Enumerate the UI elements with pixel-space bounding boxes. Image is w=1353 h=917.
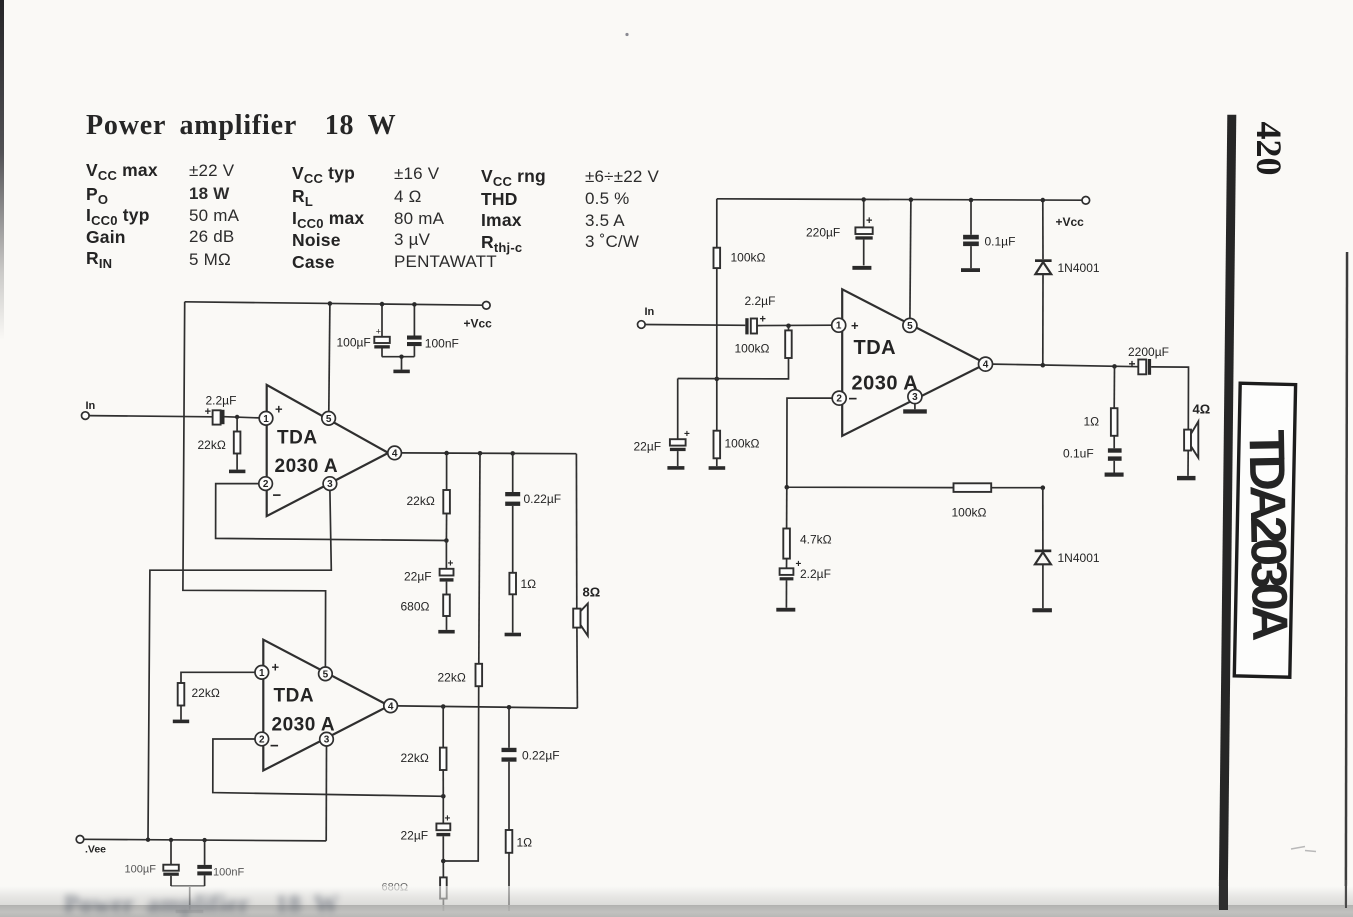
svg-text:.Vee: .Vee	[85, 844, 106, 856]
capacitor 100nF rail decoupling	[407, 302, 459, 357]
svg-text:−: −	[270, 738, 279, 755]
ground under 22uF	[667, 466, 684, 470]
svg-text:1: 1	[836, 321, 842, 332]
capacitor 2.2uF U3 feedback	[780, 559, 831, 608]
sidebar heavy rule bottom segment above bands	[1219, 880, 1228, 910]
scan dashes bottom right	[1291, 847, 1316, 852]
svg-text:22µF: 22µF	[634, 440, 662, 454]
resistor 1 ohm U3 zobel	[1084, 366, 1118, 448]
svg-text:In: In	[645, 306, 655, 318]
svg-text:100kΩ: 100kΩ	[735, 342, 770, 356]
wire left +Vcc rail (bridge circuit)	[185, 302, 483, 305]
wire U2 pin3 to -Vee rail	[325, 746, 327, 841]
svg-text:8Ω: 8Ω	[583, 585, 601, 600]
wire pin5 U3 to rail	[909, 197, 914, 318]
scan speck top middle	[625, 33, 628, 36]
capacitor 100uF -Vee decoupling	[125, 840, 179, 886]
ground under rail caps	[393, 370, 409, 374]
svg-text:+: +	[445, 814, 451, 825]
wire In to input cap	[645, 324, 745, 327]
resistor 1 ohm U2 zobel	[506, 830, 532, 911]
resistor 1 ohm U1 zobel	[509, 573, 536, 633]
svg-text:100µF: 100µF	[337, 336, 371, 350]
wire output cap to speaker	[1151, 367, 1188, 430]
svg-text:+: +	[272, 660, 280, 675]
svg-text:4Ω: 4Ω	[1193, 402, 1211, 417]
svg-text:5: 5	[907, 321, 913, 332]
pin 1 U2	[255, 666, 269, 680]
svg-text:+: +	[866, 215, 872, 227]
pin 3 U2	[320, 732, 334, 746]
ground under U3 zobel	[1105, 473, 1124, 477]
capacitor 100uF rail decoupling	[337, 302, 390, 357]
svg-text:+: +	[760, 314, 766, 326]
diode 1N4001 lower	[1035, 488, 1100, 609]
right page edge line	[1345, 252, 1349, 908]
svg-text:−: −	[849, 391, 858, 408]
capacitor 100nF -Vee decoupling	[197, 840, 244, 886]
svg-text:2.2µF: 2.2µF	[206, 394, 237, 408]
svg-text:1N4001: 1N4001	[1058, 551, 1100, 565]
speaker 8 ohm load	[573, 454, 600, 708]
svg-text:5: 5	[326, 414, 332, 425]
pin 5 U3	[903, 318, 917, 332]
pin 2 U1	[259, 477, 273, 491]
svg-text:2: 2	[836, 394, 842, 405]
pin 3 U1	[323, 477, 337, 491]
svg-text:0.1uF: 0.1uF	[1063, 447, 1094, 461]
svg-text:0.22µF: 0.22µF	[522, 749, 560, 763]
svg-text:3: 3	[324, 735, 330, 746]
ground under 220uF	[852, 266, 871, 270]
ground under 22k input bias	[229, 470, 245, 474]
pin 1 U3	[832, 318, 846, 332]
svg-text:100kΩ: 100kΩ	[731, 251, 766, 265]
svg-text:22kΩ: 22kΩ	[198, 438, 226, 452]
svg-text:100µF: 100µF	[125, 864, 157, 876]
svg-text:5: 5	[323, 669, 329, 680]
svg-text:2: 2	[259, 735, 265, 746]
capacitor 0.22uF U1 zobel	[505, 453, 561, 572]
page number 420	[1249, 122, 1289, 176]
svg-text:420: 420	[1249, 122, 1289, 176]
capacitor 0.1uF U3 zobel	[1063, 447, 1122, 473]
wire cap to pin1 U3	[757, 324, 832, 329]
svg-text:22kΩ: 22kΩ	[438, 671, 466, 685]
capacitor 220uF rail decoupling	[806, 197, 873, 265]
ground under lower diode	[1032, 608, 1052, 612]
svg-text:4.7kΩ: 4.7kΩ	[800, 533, 832, 547]
svg-text:In: In	[86, 400, 96, 412]
capacitor 2200uF output	[1128, 345, 1169, 375]
terminal In right	[638, 306, 655, 328]
wire -Vee rail	[84, 838, 326, 843]
spec table	[86, 160, 158, 181]
svg-text:2.2µF: 2.2µF	[800, 567, 831, 581]
svg-text:22µF: 22µF	[404, 570, 432, 584]
resistor 22k U1 feedback	[407, 453, 450, 540]
svg-text:220µF: 220µF	[806, 226, 840, 240]
wire In to C1	[89, 416, 212, 417]
ground under 0.1uF	[961, 268, 980, 272]
svg-text:680Ω: 680Ω	[401, 600, 430, 614]
ghost bleed-through of title text in bottom band	[64, 891, 484, 917]
svg-text:100kΩ: 100kΩ	[725, 437, 760, 451]
svg-text:100nF: 100nF	[213, 867, 244, 879]
wire C1 to pin1 U1	[225, 415, 260, 419]
wire U1 pin3 to -Vee branch	[148, 490, 331, 839]
resistor 22k U1-out to U2 chain	[438, 453, 483, 861]
svg-text:2030 A: 2030 A	[275, 456, 339, 477]
svg-text:TDA: TDA	[274, 686, 315, 707]
resistor 100k input bottom	[714, 431, 760, 467]
op-amp U2 TDA2030A triangle	[263, 640, 389, 771]
diode 1N4001 upper	[1035, 198, 1100, 365]
pin 4 U1	[388, 446, 402, 460]
resistor 100k input top	[714, 199, 766, 431]
capacitor 0.22uF U2 zobel	[502, 707, 560, 830]
svg-text:+: +	[275, 402, 283, 417]
resistor 100k U3 feedback	[952, 483, 1046, 519]
svg-text:22kΩ: 22kΩ	[401, 751, 429, 765]
ground under 1 ohm	[505, 633, 521, 637]
svg-text:0.22µF: 0.22µF	[524, 492, 562, 506]
svg-text:100nF: 100nF	[425, 337, 459, 351]
pin 2 U3	[832, 391, 846, 405]
wire +Vcc drop to pin5 U1	[328, 301, 333, 411]
resistor 22k U1 input bias	[198, 417, 241, 470]
ground under U2 22k	[173, 720, 189, 724]
svg-text:2: 2	[263, 479, 269, 490]
speaker 4 ohm	[1184, 402, 1210, 476]
svg-text:4: 4	[392, 448, 398, 459]
terminal +Vcc right	[1056, 197, 1090, 230]
ground under 100k divider	[709, 466, 726, 470]
bottom dark grey scan band	[0, 905, 1353, 917]
pin 4 U2	[384, 699, 398, 713]
wire U1 feedback to pin 2	[216, 484, 449, 543]
svg-text:2.2µF: 2.2µF	[745, 294, 776, 308]
svg-text:1Ω: 1Ω	[1084, 415, 1100, 429]
resistor 680 U2 feedback	[382, 836, 447, 911]
svg-text:3: 3	[912, 392, 918, 403]
pin 5 U1	[322, 412, 336, 426]
svg-text:+: +	[851, 318, 859, 333]
capacitor 2.2uF input (bridge)	[205, 394, 237, 425]
svg-text:+: +	[684, 429, 690, 440]
pin 2 U2	[255, 732, 269, 746]
svg-text:22µF: 22µF	[401, 829, 429, 843]
wire U2 output node	[397, 704, 577, 709]
svg-text:TDA: TDA	[277, 428, 318, 449]
svg-text:+Vcc: +Vcc	[464, 317, 493, 331]
pin 4 U3	[979, 357, 993, 371]
svg-text:+: +	[205, 406, 211, 418]
terminal In (bridge)	[82, 400, 96, 419]
ground under 680	[438, 630, 454, 634]
svg-text:+: +	[1129, 357, 1136, 371]
resistor 4.7k U3 feedback lower	[783, 487, 831, 568]
capacitor 0.1uF rail decoupling	[963, 198, 1015, 269]
svg-text:+: +	[448, 559, 454, 570]
capacitor 22uF U2 feedback	[401, 796, 451, 842]
svg-text:+Vcc: +Vcc	[1056, 215, 1085, 229]
wire cap join	[382, 355, 415, 370]
ground under 2.2uF feedback	[776, 608, 795, 612]
svg-text:4: 4	[983, 360, 989, 371]
wire right +Vcc rail (single circuit)	[717, 199, 1082, 200]
svg-text:0.1µF: 0.1µF	[985, 235, 1016, 249]
svg-text:2030 A: 2030 A	[852, 373, 919, 395]
resistor 100k bias mid	[678, 326, 792, 379]
capacitor 22uF bias decoupling	[634, 379, 691, 467]
wire U3 output	[993, 363, 1139, 369]
resistor 22k U2 feedback	[401, 707, 447, 797]
capacitor 2.2uF input right	[745, 294, 776, 334]
svg-text:1: 1	[259, 668, 265, 679]
svg-text:1N4001: 1N4001	[1058, 261, 1100, 275]
terminal -Vee	[76, 836, 106, 856]
pin 3 U3	[908, 390, 922, 404]
wire left tall +Vcc branch down to U2 pin5	[183, 302, 326, 667]
svg-text:−: −	[273, 487, 282, 504]
svg-text:3: 3	[327, 479, 333, 490]
capacitor 22uF U1 feedback	[404, 541, 454, 584]
wire U3 pin2 feedback run	[785, 398, 954, 489]
right page edge line bottom segment	[1345, 880, 1347, 908]
op-amp U3 TDA2030A triangle	[842, 289, 986, 436]
svg-text:100kΩ: 100kΩ	[952, 506, 987, 520]
op-amp U1 TDA2030A triangle	[267, 385, 389, 516]
resistor 680 U1 feedback	[401, 582, 450, 630]
svg-text:1: 1	[263, 414, 269, 425]
svg-text:1Ω: 1Ω	[517, 836, 533, 850]
svg-text:+: +	[376, 327, 381, 337]
pin 1 U1	[259, 412, 273, 426]
TDA2030A side box	[1234, 383, 1298, 677]
bottom light grey scan band	[0, 886, 1353, 906]
svg-text:4: 4	[388, 701, 394, 712]
svg-text:TDA2030A: TDA2030A	[1239, 429, 1299, 640]
terminal +Vcc left	[464, 302, 493, 331]
svg-text:TDA: TDA	[854, 337, 897, 359]
svg-text:22kΩ: 22kΩ	[192, 686, 220, 700]
ground under speaker	[1177, 476, 1196, 480]
title	[86, 110, 396, 142]
sidebar heavy rule	[1219, 115, 1237, 909]
wire U1 output node	[401, 451, 576, 456]
svg-text:22kΩ: 22kΩ	[407, 494, 435, 508]
wire U2 pin2 feedback	[213, 739, 446, 799]
svg-text:2200µF: 2200µF	[1128, 345, 1169, 359]
left page edge scan artifact	[0, 0, 4, 340]
ground under -Vee caps	[171, 886, 205, 913]
resistor 22k U2 input bias	[178, 672, 255, 719]
svg-text:1Ω: 1Ω	[521, 577, 537, 591]
pin 5 U2	[319, 667, 333, 681]
ground under pin3 U3	[903, 404, 927, 414]
